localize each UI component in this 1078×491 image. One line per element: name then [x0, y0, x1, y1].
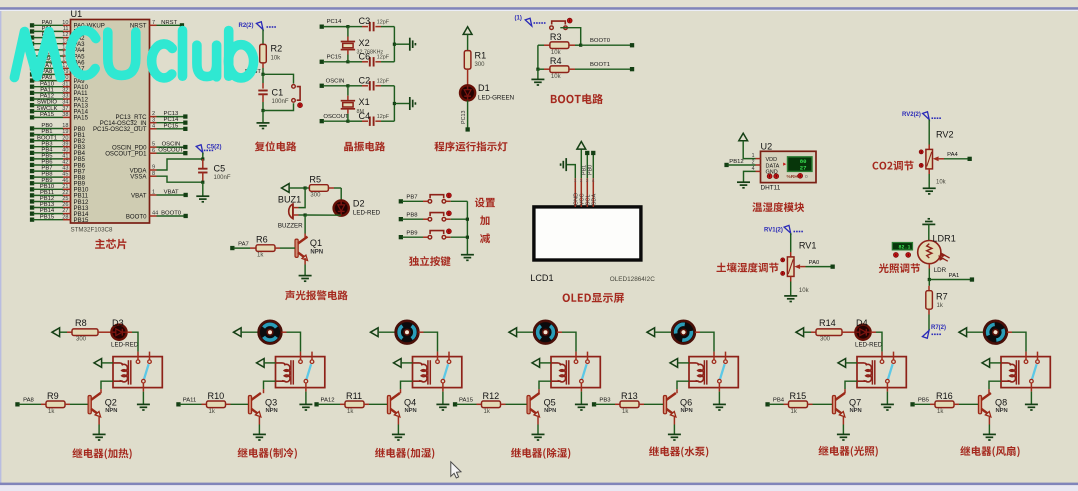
svg-text:SWCLK: SWCLK	[37, 106, 58, 112]
ground relay RL5	[713, 404, 726, 410]
svg-text:NPN: NPN	[996, 408, 1008, 414]
svg-text:RV1: RV1	[799, 241, 817, 251]
svg-text:10: 10	[62, 20, 68, 26]
power terminal motor 4	[509, 328, 517, 337]
svg-text:1k: 1k	[48, 409, 55, 415]
wire VDDA to C5 top	[157, 159, 203, 170]
svg-text:NRST: NRST	[161, 20, 177, 26]
motor 4	[534, 331, 538, 333]
svg-text:26: 26	[62, 202, 68, 208]
svg-text:PA1: PA1	[949, 273, 960, 279]
svg-text:BUZZER: BUZZER	[278, 222, 303, 229]
svg-text:PB0: PB0	[588, 165, 594, 175]
pin PB3 (39) wire PB3	[30, 145, 34, 149]
svg-text:BOOT0: BOOT0	[126, 213, 147, 220]
svg-text:46: 46	[62, 178, 68, 184]
label 继电器(制冷)	[238, 448, 297, 459]
svg-text:PB6: PB6	[41, 160, 53, 166]
svg-text:27: 27	[62, 208, 68, 214]
ground Q1	[299, 276, 312, 282]
svg-text:2: 2	[580, 178, 583, 183]
svg-text:OSCOUT: OSCOUT	[323, 114, 349, 120]
svg-text:VBAT: VBAT	[131, 192, 147, 199]
svg-text:RV1(2): RV1(2)	[764, 228, 783, 234]
pin PC14-OSC32_IN (3)	[150, 122, 157, 124]
resistor R1	[464, 51, 471, 70]
pin PA1 (11) wire PA1	[30, 29, 34, 33]
svg-text:NPN: NPN	[544, 408, 556, 414]
pin VBAT (1)	[150, 194, 157, 196]
svg-text:R15: R15	[790, 391, 807, 401]
ground X1	[410, 97, 416, 110]
label 继电器(风扇)	[960, 446, 1019, 457]
pot RV1	[790, 233, 792, 252]
svg-text:34: 34	[62, 100, 68, 106]
ground RV2	[923, 188, 936, 194]
power terminal motor 5	[647, 328, 655, 337]
dht11 U2 body	[761, 151, 817, 182]
svg-text:D1: D1	[478, 83, 490, 93]
svg-text:Q2: Q2	[105, 398, 117, 408]
power flag C5(2)	[196, 145, 203, 153]
svg-text:10k: 10k	[551, 50, 562, 56]
svg-text:R8: R8	[75, 318, 87, 328]
svg-text:Q1: Q1	[310, 238, 322, 248]
wire X2 right rail	[393, 27, 395, 62]
svg-text:R13: R13	[621, 391, 638, 401]
wire to ground	[262, 111, 264, 123]
relay RL3 common pin	[441, 379, 445, 383]
key wire to rail PB7	[446, 200, 451, 202]
pin PA3 (13) wire PA3	[30, 42, 34, 46]
wire coil to Q3 collector	[264, 381, 276, 389]
svg-text:1k: 1k	[484, 409, 491, 415]
power terminal motor 2	[234, 328, 242, 337]
transistor Q3 NPN	[263, 389, 265, 393]
pin PB5 (41) wire PB5	[30, 157, 34, 161]
wire SCL to PB1	[586, 155, 588, 179]
relay RL7	[1001, 357, 1050, 388]
svg-text:NPN: NPN	[105, 408, 117, 414]
ldr buttons	[894, 253, 899, 258]
keys ground rail	[466, 201, 468, 254]
pin VDDA (9)	[150, 169, 157, 171]
svg-text:5: 5	[152, 142, 155, 148]
pin PB4 (40) wire PB4	[30, 151, 34, 155]
svg-text:37: 37	[62, 106, 68, 112]
node PA1	[928, 278, 931, 281]
pot RV1 adjust dots	[781, 258, 785, 262]
terminal PC13	[466, 127, 470, 131]
label 加	[480, 216, 490, 226]
wire R3-R4 left rail	[537, 45, 539, 69]
oled pin VCC	[580, 178, 582, 207]
key button red dot PB8	[447, 211, 452, 216]
pot RV2 adjust dots	[919, 150, 923, 154]
key button PB9	[428, 231, 446, 239]
svg-text:OSCIN: OSCIN	[162, 142, 181, 148]
wire PC15 net	[320, 60, 324, 64]
svg-text:27: 27	[800, 165, 807, 172]
power terminal R5	[282, 184, 290, 193]
dht11 buttons	[767, 174, 772, 179]
wire power to VDD pin 1	[743, 141, 755, 159]
svg-text:PB8: PB8	[41, 172, 53, 178]
svg-text:VDD: VDD	[766, 157, 778, 163]
resistor R5	[305, 187, 309, 189]
svg-text:19: 19	[62, 129, 68, 135]
svg-text:PA15: PA15	[74, 115, 89, 122]
wire Q8 emitter to ground	[988, 417, 990, 425]
svg-text:1k: 1k	[257, 253, 264, 259]
label BOOT电路	[551, 94, 603, 104]
crystal X2	[347, 27, 349, 37]
svg-text:40: 40	[62, 147, 68, 153]
wire VSSA to C5 bottom	[157, 176, 203, 182]
label 设置	[475, 198, 495, 208]
wiper wire PA0	[794, 264, 800, 269]
transistor Q6 NPN	[676, 389, 678, 393]
relay RL2	[276, 357, 325, 388]
svg-text:DHT11: DHT11	[761, 184, 781, 191]
pin VSSA (8)	[150, 175, 157, 177]
svg-text:PA10: PA10	[40, 81, 55, 87]
wire R2 to NRST node	[262, 63, 264, 68]
relay RL6	[857, 357, 906, 388]
oled pin GND	[574, 178, 576, 207]
wire Q7 emitter to ground	[842, 417, 844, 425]
ground below C5	[196, 196, 209, 202]
wire OSCIN net	[320, 84, 324, 88]
led D2 LED-RED	[334, 201, 349, 216]
ground relay RL4	[575, 404, 588, 410]
reset button	[292, 85, 300, 103]
node PC14 junction	[346, 25, 349, 28]
svg-text:D4: D4	[856, 318, 868, 328]
svg-text:1: 1	[152, 190, 155, 196]
svg-text:R11: R11	[346, 391, 362, 401]
svg-text:PB0: PB0	[41, 123, 53, 129]
motor 3	[395, 331, 399, 333]
relay RL4 common pin	[580, 379, 584, 383]
svg-text:BUZ1: BUZ1	[278, 194, 301, 204]
svg-text:38: 38	[62, 112, 68, 118]
svg-text:PC15: PC15	[327, 54, 342, 60]
pin PB8 (45) wire PB8	[30, 175, 34, 179]
power terminal D1	[463, 27, 472, 35]
power terminal relay RL6 coil	[838, 359, 846, 368]
pin PB12 (25) wire PB12	[30, 199, 34, 203]
svg-text:2: 2	[152, 111, 155, 117]
pin PA10 (31) wire PA10	[30, 85, 34, 89]
label OLED显示屏	[563, 293, 624, 303]
svg-text:10k: 10k	[936, 179, 947, 185]
label 减	[480, 233, 490, 243]
bottom border line	[0, 483, 1078, 486]
svg-text:%RH: %RH	[787, 174, 799, 180]
node C1 bottom	[261, 109, 264, 112]
led D3 LED-RED	[111, 325, 126, 340]
svg-text:NPN: NPN	[681, 408, 693, 414]
svg-text:NPN: NPN	[266, 408, 278, 414]
pin PA11 (32) wire PA11	[30, 91, 34, 95]
svg-text:1k: 1k	[937, 409, 944, 415]
ground LDR top	[922, 219, 935, 225]
left border line	[0, 11, 1, 483]
relay RL6 blade	[888, 364, 893, 379]
ground reset	[257, 123, 270, 129]
mouse cursor	[451, 462, 461, 478]
wire motor 7 to relay	[1012, 332, 1026, 351]
svg-text:PC13: PC13	[164, 111, 179, 117]
svg-text:R2: R2	[271, 44, 283, 54]
power terminal relay RL4 coil	[532, 359, 540, 368]
svg-text:Q4: Q4	[404, 398, 416, 408]
node D2 bottom	[304, 213, 307, 216]
svg-text:C2: C2	[359, 75, 371, 85]
wire C5 to ground	[202, 182, 204, 196]
pin PB2 (20) wire BOOT1	[30, 139, 34, 143]
svg-text:PB15: PB15	[74, 217, 90, 224]
svg-text:C4: C4	[359, 111, 371, 121]
resistor R6	[230, 246, 234, 250]
svg-text:GND: GND	[766, 170, 778, 176]
pin PA0-WKUP (10) wire PA0	[30, 23, 34, 27]
svg-text:10k: 10k	[551, 74, 562, 80]
wire D2 to node	[340, 214, 342, 216]
boot button	[550, 21, 568, 29]
svg-text:Q8: Q8	[995, 398, 1007, 408]
wire motor 2 to relay	[287, 332, 301, 351]
capacitor C1	[262, 74, 264, 83]
relay RL3 blade	[444, 364, 449, 379]
resistor R13	[592, 402, 596, 406]
wire OSCOUT net	[320, 119, 324, 123]
wire D3 to relay	[127, 331, 133, 333]
wire flag to R2	[262, 30, 264, 45]
svg-text:BOOT0: BOOT0	[590, 38, 611, 44]
relay RL6 common pin	[886, 379, 890, 383]
pin PB10 (21) wire PB10	[30, 187, 34, 191]
svg-text:OSCOUT: OSCOUT	[158, 148, 184, 154]
svg-text:DATA: DATA	[766, 163, 780, 169]
svg-text:PB10: PB10	[40, 184, 55, 190]
svg-text:PC15-OSC32_OUT: PC15-OSC32_OUT	[93, 126, 147, 133]
dht11 display	[788, 157, 813, 172]
svg-text:31: 31	[62, 81, 68, 87]
relay RL7 common pin	[1030, 379, 1034, 383]
svg-text:X1: X1	[359, 97, 370, 107]
relay RL2 common pin	[304, 379, 308, 383]
label 晶振电路	[344, 142, 385, 152]
svg-text:C5: C5	[214, 164, 226, 174]
wire coil to Q7 collector	[845, 381, 857, 389]
svg-text:4: 4	[752, 166, 755, 172]
svg-text:C6: C6	[359, 51, 371, 61]
resistor R14	[811, 331, 816, 333]
svg-text:4: 4	[592, 178, 595, 183]
svg-text:33: 33	[62, 94, 68, 100]
ldr LDR1	[918, 241, 941, 264]
transistor Q8 NPN	[988, 389, 990, 393]
svg-text:NPN: NPN	[850, 408, 862, 414]
pin PA7 (17) wire PA7	[30, 66, 34, 70]
svg-text:300: 300	[475, 62, 486, 68]
svg-text:LDR1: LDR1	[933, 233, 956, 243]
resistor R12	[453, 402, 457, 406]
node OSCOUT junction	[346, 120, 349, 123]
svg-text:PB9: PB9	[41, 178, 52, 184]
wire buzzer top pin	[293, 207, 299, 209]
svg-text:44: 44	[152, 211, 158, 217]
label 独立按键	[409, 256, 451, 266]
svg-text:1k: 1k	[791, 409, 798, 415]
svg-text:82.1: 82.1	[898, 244, 910, 250]
svg-text:1k: 1k	[347, 409, 354, 415]
label 继电器(水泵)	[649, 446, 708, 457]
svg-text:PA0: PA0	[42, 20, 53, 26]
wire Q1 emitter to ground	[304, 258, 306, 265]
pin PA14 (37) wire SWCLK	[30, 109, 34, 113]
net flag RV1(2)	[784, 225, 791, 233]
ground keys	[461, 255, 474, 261]
wire coil to Q5 collector	[539, 381, 551, 389]
svg-text:VSSA: VSSA	[130, 174, 147, 181]
ground Q7	[837, 434, 850, 440]
svg-text:PA8: PA8	[23, 398, 34, 404]
wire GND pin 4 to ground	[756, 170, 761, 172]
svg-text:PB4: PB4	[773, 398, 785, 404]
svg-text:PB5: PB5	[41, 154, 53, 160]
wire buzzer bottom pin	[293, 214, 299, 216]
resistor R4	[536, 68, 539, 71]
ground relay RL1	[137, 404, 150, 410]
svg-text:R10: R10	[208, 391, 225, 401]
net flag R2(2)	[256, 22, 263, 30]
svg-text:3: 3	[152, 117, 155, 123]
key button red dot PB9	[447, 229, 452, 234]
pin PB1 (19) wire PB1	[30, 132, 34, 136]
svg-text:300: 300	[76, 337, 87, 343]
label 复位电路	[255, 141, 297, 151]
svg-text:21: 21	[62, 184, 68, 190]
svg-text:45: 45	[62, 172, 68, 178]
svg-text:RV2(2): RV2(2)	[902, 112, 921, 118]
svg-text:1k: 1k	[937, 303, 944, 309]
wire PB12 to DATA pin 2	[724, 163, 728, 167]
ground relay RL6	[881, 404, 894, 410]
label 声光报警电路	[285, 290, 348, 300]
svg-text:1: 1	[574, 178, 577, 183]
wire Q3 emitter to ground	[258, 417, 260, 425]
svg-text:PA11: PA11	[40, 87, 54, 93]
svg-text:R9: R9	[47, 391, 59, 401]
ground X2	[410, 38, 416, 51]
svg-text:PB15: PB15	[40, 214, 55, 220]
svg-text:9: 9	[152, 165, 155, 171]
pin PA13 (34) wire SWDIO	[30, 103, 34, 107]
wire Q6 emitter to ground	[673, 417, 675, 425]
net flag R7(2)	[922, 331, 929, 339]
oled pin SCL	[586, 178, 588, 207]
wire SDA to PB0	[592, 155, 594, 179]
relay RL4	[551, 357, 600, 388]
ground Q6	[668, 434, 681, 440]
svg-text:10k: 10k	[799, 288, 810, 294]
wire coil to Q4 collector	[401, 381, 413, 389]
label 继电器(光照)	[819, 446, 878, 457]
ground Q5	[532, 434, 545, 440]
wire rail to ground	[537, 69, 539, 79]
wire R5 to D2	[340, 188, 342, 200]
power terminal relay RL3 coil	[394, 359, 402, 368]
svg-text:300: 300	[310, 192, 321, 198]
svg-text:18: 18	[62, 123, 68, 129]
svg-text:41: 41	[62, 154, 68, 160]
svg-text:C3: C3	[359, 16, 371, 26]
pin OSCIN_PD0 (5)	[150, 146, 157, 148]
ground Q4	[392, 434, 405, 440]
svg-text:U2: U2	[761, 141, 773, 151]
transistor Q4 NPN	[400, 389, 402, 393]
wire coil to Q2 collector	[101, 381, 113, 389]
wire D4 to relay	[871, 331, 877, 333]
svg-text:PB7: PB7	[406, 195, 417, 201]
wiper wire PA4	[933, 156, 939, 161]
key PB8 wire	[399, 217, 403, 221]
wire Q5 emitter to ground	[537, 417, 539, 425]
label 继电器(加热)	[72, 448, 131, 459]
key wire to rail PB8	[446, 218, 451, 220]
power terminal DHT11	[739, 133, 748, 141]
svg-text:PB8: PB8	[406, 213, 418, 219]
svg-text:42: 42	[62, 160, 68, 166]
label 土壤湿度调节	[717, 262, 779, 272]
svg-text:R3: R3	[550, 32, 562, 42]
key PB9 wire	[399, 235, 403, 239]
resistor R2	[262, 44, 264, 63]
svg-text:C1: C1	[272, 88, 284, 98]
svg-text:SWDIO: SWDIO	[37, 100, 57, 106]
resistor R15	[765, 402, 769, 406]
power terminal motor 3	[371, 328, 379, 337]
label 继电器(加湿)	[375, 448, 434, 459]
resistor R7	[928, 280, 930, 286]
ground relay RL2	[299, 404, 312, 410]
svg-text:R14: R14	[819, 318, 836, 328]
label 光照调节	[879, 263, 920, 273]
capacitor C5	[202, 153, 204, 160]
svg-text:Q5: Q5	[544, 398, 556, 408]
svg-text:PA11: PA11	[183, 398, 197, 404]
resistor R16	[910, 402, 914, 406]
boot button red dot	[567, 18, 572, 23]
wire motor 3 to relay	[424, 332, 438, 351]
pin BOOT0 (44)	[150, 215, 157, 217]
svg-text:R6: R6	[256, 235, 268, 245]
relay RL5 common pin	[718, 379, 722, 383]
svg-text:11: 11	[63, 26, 69, 32]
svg-text:U1: U1	[71, 9, 83, 19]
pin PC13_RTC (2)	[150, 116, 157, 118]
capacitor C2	[348, 85, 362, 87]
wire Q2 emitter to ground	[98, 417, 100, 425]
transistor Q1 NPN	[304, 215, 306, 234]
power terminal R8	[52, 328, 60, 337]
label 继电器(除湿)	[511, 448, 570, 459]
svg-text:6: 6	[152, 148, 155, 154]
key button red dot PB7	[447, 193, 452, 198]
